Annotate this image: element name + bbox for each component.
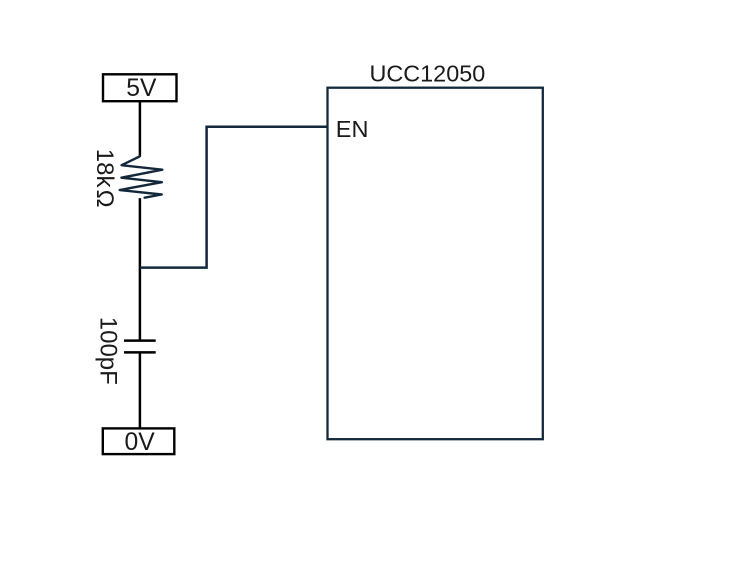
svg-text:UCC12050: UCC12050 [370,61,486,87]
power source 5V [103,74,177,102]
wire capacitor to 0V [139,352,142,427]
svg-text:5V: 5V [126,75,157,102]
wire resistor to junction to capacitor [139,198,142,341]
svg-text:EN: EN [336,116,369,142]
svg-text:18kΩ: 18kΩ [91,149,118,208]
ground 0V [103,428,175,455]
IC U1 UCC12050 box [328,88,543,440]
wire 5V to resistor [139,101,142,156]
svg-text:0V: 0V [124,429,155,456]
capacitor C 100pF [124,341,156,353]
resistor R 18k [120,157,163,198]
wire junction to EN pin [140,127,328,268]
svg-text:100pF: 100pF [95,317,122,385]
